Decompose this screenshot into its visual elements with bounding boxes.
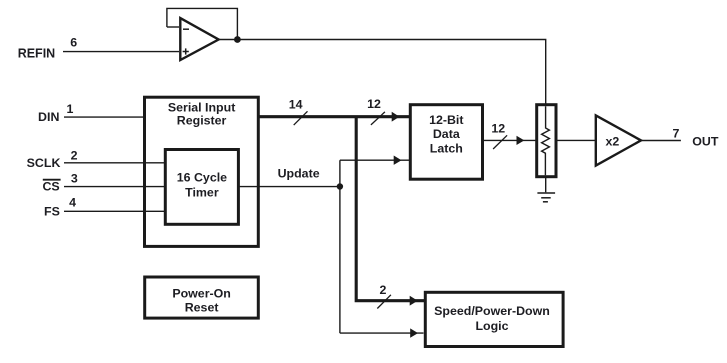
svg-text:DIN: DIN <box>38 110 59 124</box>
svg-text:6: 6 <box>70 35 77 49</box>
svg-text:4: 4 <box>69 195 76 209</box>
svg-text:Timer: Timer <box>185 185 219 199</box>
svg-text:Register: Register <box>177 114 227 128</box>
svg-text:Speed/Power-Down: Speed/Power-Down <box>434 304 550 318</box>
svg-text:Power-On: Power-On <box>172 286 231 300</box>
svg-text:x2: x2 <box>606 134 620 148</box>
svg-text:2: 2 <box>379 283 386 297</box>
svg-text:REFIN: REFIN <box>18 47 56 61</box>
svg-text:3: 3 <box>71 172 78 186</box>
svg-text:12-Bit: 12-Bit <box>429 113 463 127</box>
svg-text:Serial Input: Serial Input <box>168 101 235 115</box>
svg-text:Logic: Logic <box>475 319 508 333</box>
svg-text:12: 12 <box>491 122 505 136</box>
svg-text:Reset: Reset <box>185 301 219 315</box>
svg-text:CS: CS <box>42 179 59 193</box>
svg-text:Latch: Latch <box>430 141 463 155</box>
svg-text:FS: FS <box>44 205 60 219</box>
svg-text:OUT: OUT <box>692 134 719 148</box>
svg-text:Update: Update <box>278 167 320 181</box>
svg-text:12: 12 <box>367 97 381 111</box>
svg-text:2: 2 <box>71 148 78 162</box>
svg-text:Data: Data <box>433 127 460 141</box>
svg-text:SCLK: SCLK <box>27 156 61 170</box>
svg-text:16 Cycle: 16 Cycle <box>177 171 227 185</box>
svg-text:7: 7 <box>673 127 680 141</box>
svg-text:1: 1 <box>67 102 74 116</box>
svg-text:14: 14 <box>289 97 303 111</box>
